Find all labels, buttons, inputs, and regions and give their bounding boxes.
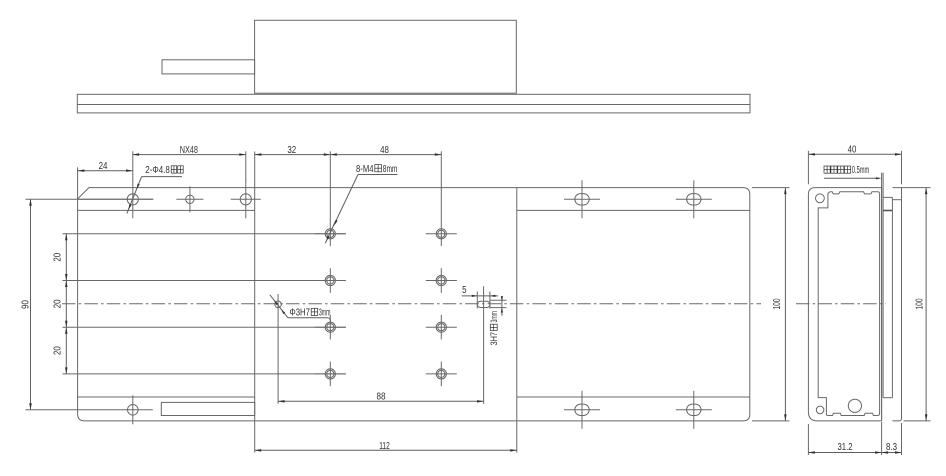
svg-text:Φ3H7: Φ3H7 [290,308,311,319]
svg-text:40: 40 [848,145,857,156]
dim 24 [78,161,133,172]
plan: M4 hole col2 row1 [426,222,457,247]
dim ext v col1 [329,151,331,221]
side: body outline [808,188,881,421]
dim 100 plan ext [752,188,790,421]
side: gap line pair [882,173,884,421]
plan: slot 3H7 stadium [477,286,490,404]
svg-text:3mm: 3mm [489,311,499,323]
plan: bottom flange line right [517,396,750,398]
plan: row line 2 [63,280,346,282]
plan: row line 4 [63,373,346,375]
plan: carriage left edge [254,152,256,453]
dim 100 side line [915,188,928,421]
svg-text:24: 24 [99,161,108,172]
dim ext v hole2 [245,151,247,181]
svg-text:32: 32 [287,145,296,156]
dim ext v hole1 [132,151,134,181]
side: hole bottom-left [816,406,824,414]
svg-text:90: 90 [20,300,31,309]
dim 88 line [278,392,484,403]
plan: horizontal centerline [62,303,761,305]
dim ext v plate left [77,167,79,199]
side: right column inner line [892,199,901,201]
dim 40 ext [808,151,901,185]
dim 100 plan line [772,188,787,421]
side: hole top-left [816,194,825,203]
top view: carriage block [255,20,517,93]
svg-text:NX48: NX48 [180,145,199,156]
plan: row line 3 [63,326,346,328]
plan: oblong slot top #1 [564,180,600,218]
plan: M4 hole col1 row1 [315,222,346,247]
top view: sensor tab [162,60,255,74]
plan: bottom flange line left [78,396,255,398]
svg-text:3H7: 3H7 [489,332,499,346]
gap leader [824,177,881,179]
plan: M4 hole col1 row2 [315,268,346,293]
plan: M4 hole col2 row2 [426,268,457,293]
svg-text:0.5mm: 0.5mm [852,165,870,176]
dim 100 side ext [902,188,931,421]
svg-text:8-M4: 8-M4 [356,164,374,175]
plan: pin hole 3H7 [275,294,282,404]
leader 8-M4 line [325,175,397,244]
svg-text:5: 5 [462,285,467,296]
svg-text:48: 48 [380,145,389,156]
side: thin plate thick line [883,210,892,212]
dim 20 labels [52,252,63,355]
plan: oblong slot bottom #1 [564,391,600,429]
svg-text:100: 100 [772,298,783,309]
plan: M4 hole col2 row3 [426,315,457,340]
gap label text [824,165,869,176]
svg-text:8.3: 8.3 [886,442,897,453]
plan: M4 hole col1 row4 [315,362,346,387]
svg-text:2-Φ4.8: 2-Φ4.8 [145,165,170,176]
svg-text:20: 20 [52,252,63,261]
dim ext v col2 [440,151,442,221]
side: inner contour [818,192,879,416]
dim bottom ext [808,422,901,455]
plan: oblong slot top #2 [676,180,712,218]
dim 112 line [255,441,517,452]
leader phi3H7 line [270,295,331,323]
leader 2-phi4.8 line [127,177,182,214]
dim 90 line [20,199,32,409]
dim 90 ext bottom [26,409,114,411]
plan: bottom flange hole [113,395,153,424]
plan: M4 hole col1 row3 [315,315,346,340]
top view: rail mid line [77,104,750,106]
dim 3H7 text [489,311,499,346]
dim 40 line [808,145,901,156]
plan: small hole mid flange [176,186,203,212]
plan: row line 1 [63,233,346,235]
side: hole bottom-center [848,399,861,412]
plan: M4 hole col2 row4 [426,362,457,387]
svg-text:112: 112 [379,441,390,452]
leader phi3H7 text [290,308,331,319]
plan: hole phi4.8 #2 [231,180,261,218]
dim 48 [330,145,441,156]
dim 32 [255,145,330,156]
dim 5 line [462,285,498,297]
leader 8-M4 text [356,164,397,175]
svg-text:31.2: 31.2 [838,442,853,453]
dim 3 ext lines [490,300,507,307]
plan: carriage right edge [516,188,518,453]
plan: top flange line left [78,209,255,211]
dim 8.3 text [886,442,897,453]
svg-text:100: 100 [915,298,926,309]
svg-text:88: 88 [377,392,386,403]
dim 3 vline [501,296,503,316]
plan: oblong slot bottom #2 [676,391,712,429]
dim 31.2 and 8.3 line [808,451,901,454]
plan: base plate outline [78,188,750,421]
dim NX48 [133,145,246,156]
svg-text:3mm: 3mm [319,308,331,319]
side: carriage thin plate [883,197,892,397]
plan chamfer line [78,198,154,200]
plan: hole phi4.8 #1 [113,180,153,218]
dim 5 ext lines [477,292,490,309]
side: centerline [796,303,886,305]
dim 31.2 text [838,442,853,453]
dim 90 ext top [26,198,114,200]
dim 20 chain line [65,234,68,374]
leader 2-phi4.8 text [145,165,183,176]
side: right column [892,188,901,421]
plan: bottom flange slot cutout [161,402,254,415]
svg-text:20: 20 [52,299,63,308]
plan: top flange line right [517,209,750,211]
top view: base rail body [77,94,750,113]
svg-text:20: 20 [52,346,63,355]
svg-text:8mm: 8mm [383,164,398,175]
